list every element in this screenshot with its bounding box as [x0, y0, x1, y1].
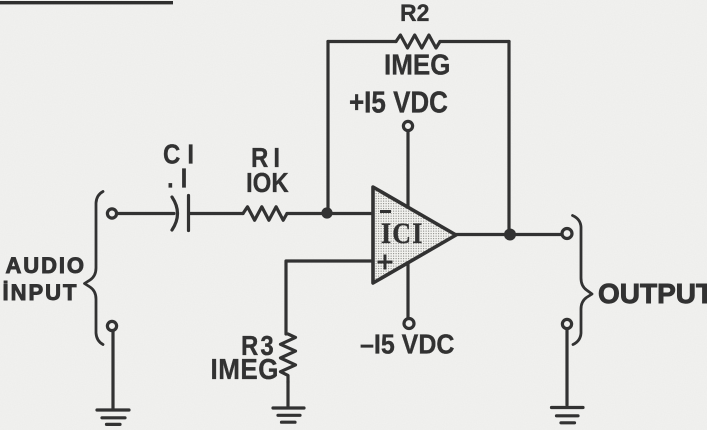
wire: R1 to op-amp inverting input: [287, 212, 373, 215]
junction: summing node: [321, 207, 332, 218]
wire: input return to ground: [111, 331, 114, 410]
wire: top feedback run, left: [328, 40, 396, 43]
terminal -15 VDC: [404, 319, 414, 329]
svg-text:IMEG: IMEG: [211, 353, 279, 385]
resistor R3: [281, 334, 296, 382]
terminal +15 VDC: [403, 121, 412, 130]
svg-text:İNPUT: İNPUT: [3, 280, 79, 305]
wire: vertical from R2 right end down to output node: [507, 42, 510, 235]
svg-text:OUTPUT: OUTPUT: [598, 278, 707, 309]
svg-text:IMEG: IMEG: [384, 48, 450, 80]
ground: R3: [273, 408, 304, 422]
input terminal (return): [107, 321, 116, 330]
wire: input terminal to C1: [117, 212, 175, 215]
resistor R2: [396, 35, 440, 48]
wire: op-amp to -15 VDC supply: [406, 263, 409, 318]
junction: output node: [504, 229, 516, 241]
wire: op-amp non-inverting input run: [286, 261, 373, 334]
op-amp IC1 inverting pin mark: [380, 210, 391, 213]
svg-text:IOK: IOK: [246, 166, 289, 198]
svg-text:ICI: ICI: [381, 217, 424, 250]
wire: R3 to ground: [286, 382, 289, 406]
ground: audio input: [97, 410, 129, 424]
brace: output pair: [573, 216, 593, 345]
svg-text:AUDIO: AUDIO: [6, 253, 86, 278]
svg-text:–I5 VDC: –I5 VDC: [360, 328, 454, 359]
wire: vertical from R2 left end down to summing node: [326, 42, 329, 213]
svg-text:.I: .I: [167, 162, 194, 194]
brace: audio input pair: [85, 192, 104, 345]
output terminal (hot): [562, 229, 572, 239]
ground: output: [552, 408, 584, 423]
op-amp IC1 non-inverting pin mark: [378, 255, 393, 270]
wire: C1 to R1: [190, 212, 244, 215]
wire: op-amp output to output terminal: [456, 233, 562, 236]
input terminal (hot): [107, 209, 116, 218]
wire: output return to ground: [565, 329, 568, 405]
svg-text:+I5 VDC: +I5 VDC: [349, 86, 448, 119]
capacitor C1: [172, 196, 189, 231]
wire: top feedback run, right: [440, 40, 509, 43]
svg-text:R2: R2: [400, 0, 429, 26]
output terminal (return): [562, 319, 571, 328]
wire: +15 VDC supply to op-amp: [406, 131, 409, 208]
resistor R1: [243, 207, 287, 220]
op-amp IC1: [373, 187, 456, 283]
